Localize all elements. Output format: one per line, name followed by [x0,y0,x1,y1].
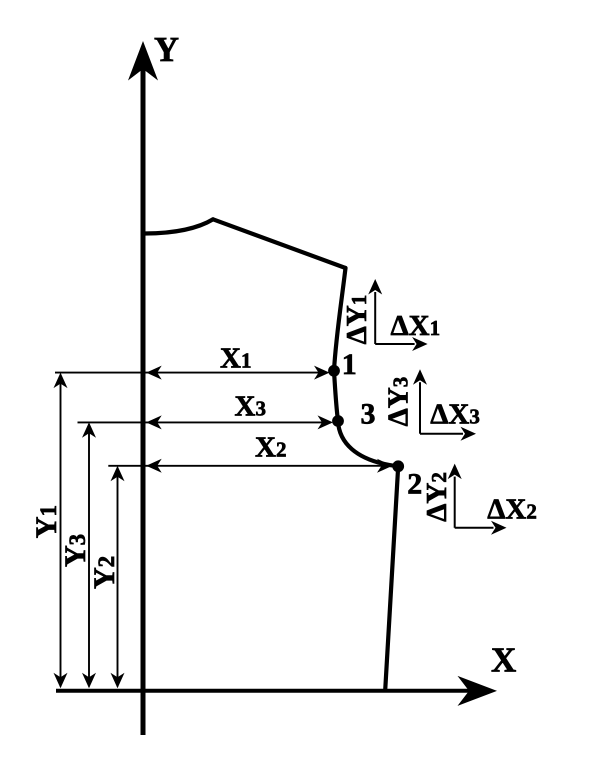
svg-text:ΔX3: ΔX3 [430,399,480,431]
contour armhole mid curve (point 1 to point 3) [334,371,338,422]
label deltaY2 (rotated) [421,472,453,522]
X axis line [56,689,470,693]
local axes at point 3 (delta system 3) [413,369,476,441]
point 1 label [342,348,357,381]
label deltaX3 [430,399,480,431]
Y axis line [141,62,146,735]
point 3 dot [332,415,344,427]
contour side seam line [385,466,398,688]
contour shoulder line [213,219,346,268]
dimension label X1 [220,343,251,375]
svg-text:ΔY2: ΔY2 [421,472,453,522]
point 1 dot [328,365,340,377]
Y axis arrowhead [128,41,158,81]
svg-text:ΔY1: ΔY1 [341,295,373,345]
label deltaX2 [487,494,537,526]
contour armhole lower curve (point 3 to point 2) [338,421,398,466]
svg-text:Y: Y [154,30,179,69]
point 3 label [361,398,376,431]
dimension label Y2 (rotated) [88,556,121,589]
dimension arrow Y1 (vertical double-headed) [54,373,68,689]
X axis arrowhead [458,676,498,706]
dimension label X3 [235,391,266,423]
contour armhole upper curve (shoulder to point 1) [334,268,346,371]
svg-text:1: 1 [342,348,357,381]
point 2 label [407,468,422,501]
svg-text:X3: X3 [235,391,266,423]
svg-text:Y2: Y2 [88,556,121,589]
svg-text:ΔX2: ΔX2 [487,494,537,526]
dimension line X3 with arrowheads [78,415,334,429]
label deltaY1 (rotated) [341,295,373,345]
X axis label X [491,641,516,680]
dimension line X1 with arrowheads [55,366,330,380]
dimension arrow Y3 (vertical double-headed) [82,422,96,688]
svg-text:ΔX1: ΔX1 [391,310,441,342]
dimension label X2 [255,432,286,464]
point 2 dot [392,460,404,472]
dimension label Y3 (rotated) [59,534,92,567]
svg-text:ΔY3: ΔY3 [383,377,415,427]
label deltaY3 (rotated) [383,377,415,427]
local axes at point 2 (delta system 2) [448,464,507,535]
contour neckline curve [145,219,213,233]
dimension arrow Y2 (vertical double-headed) [111,466,125,689]
svg-text:X: X [491,641,516,680]
local axes at point 1 (delta system 1) [368,279,427,351]
label deltaX1 [391,310,441,342]
svg-text:Y3: Y3 [59,534,92,567]
dimension line X2 with arrowheads [108,459,392,473]
svg-text:3: 3 [361,398,376,431]
svg-text:X2: X2 [255,432,286,464]
dimension label Y1 (rotated) [30,505,63,538]
svg-text:X1: X1 [220,343,251,375]
Y axis label Y [154,30,179,69]
svg-text:Y1: Y1 [30,505,63,538]
